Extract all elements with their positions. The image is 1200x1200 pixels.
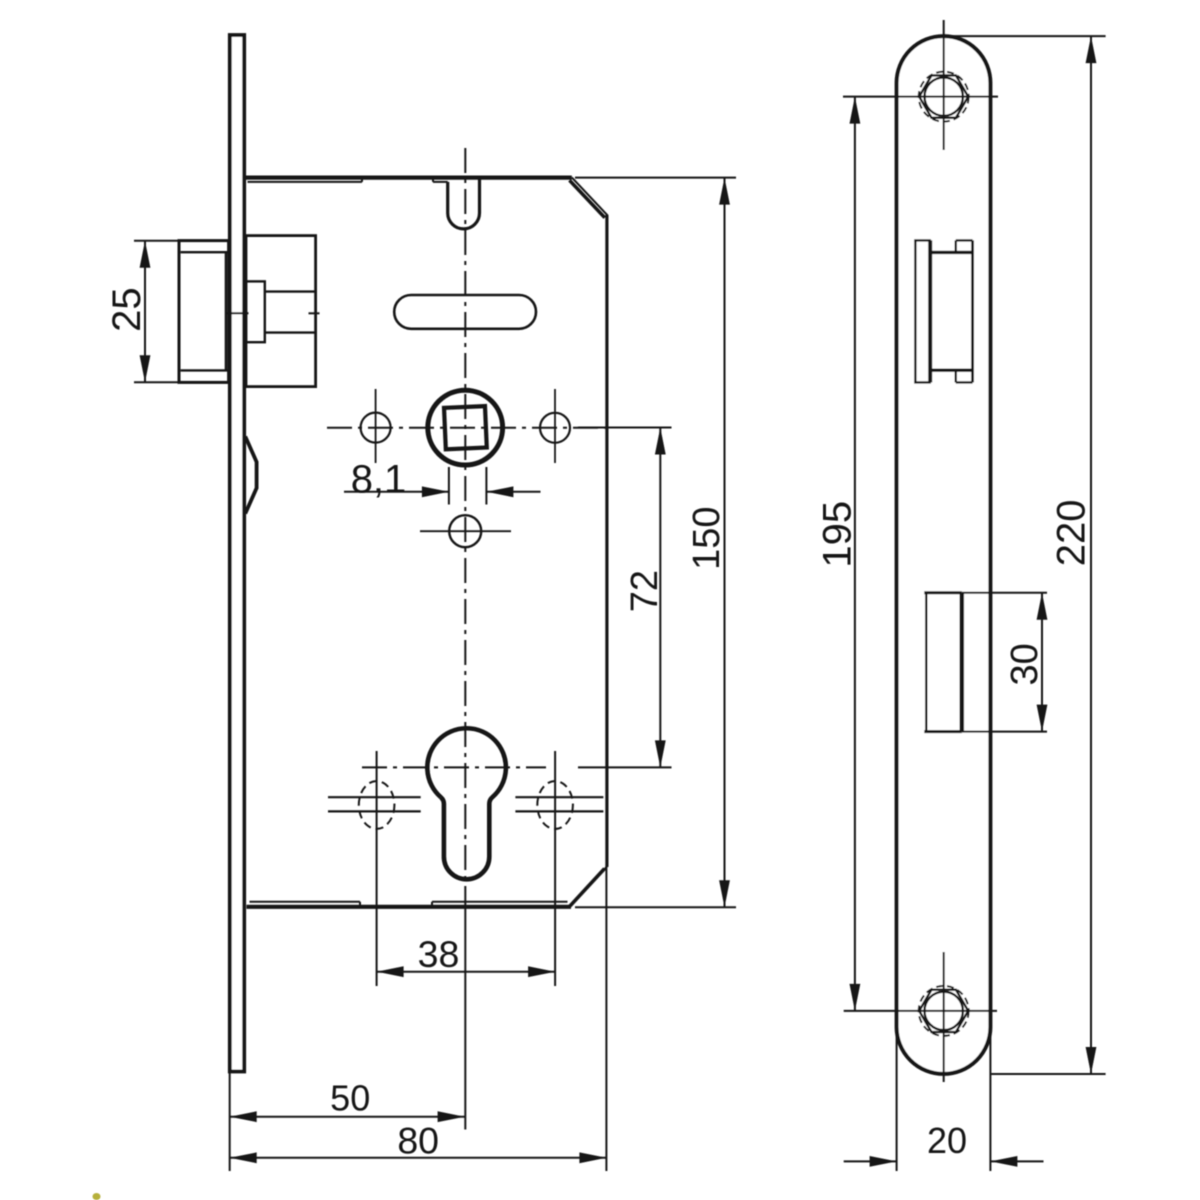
dimension 150 extension lines	[575, 177, 736, 179]
bottom screw hexagon	[919, 990, 968, 1032]
case vertical centerline	[464, 148, 466, 906]
extension line right (case edge) for 80/150	[605, 867, 607, 1171]
dimension 20 extension lines	[896, 1035, 898, 1171]
latch cutout: left strip	[914, 240, 916, 382]
svg-text:150: 150	[686, 506, 728, 569]
spindle horizontal centerline	[327, 427, 607, 429]
deadbolt cutout	[925, 593, 927, 732]
top notch (U cut)	[448, 178, 480, 229]
top screw hexagon	[919, 75, 968, 117]
screw channel lines	[328, 796, 421, 798]
svg-text:25: 25	[105, 287, 149, 332]
latch bolt head (left of faceplate)	[179, 241, 229, 383]
centerline extension below case	[464, 906, 466, 1130]
follower circle (spindle hub)	[428, 390, 503, 465]
right view dimension texts	[816, 500, 1094, 1161]
svg-text:72: 72	[624, 570, 666, 612]
dimension 80 line	[230, 1157, 607, 1159]
top screw outer circle	[919, 72, 969, 122]
left view dimension texts	[105, 287, 728, 1161]
top-right bevel	[572, 177, 608, 215]
latch bolt body (inside case)	[246, 236, 316, 387]
svg-text:20: 20	[927, 1120, 967, 1161]
left screw hole circle	[361, 413, 391, 443]
small yellow artifact bottom-left	[93, 1193, 101, 1200]
svg-text:8,1: 8,1	[351, 458, 407, 502]
latch tail block	[246, 281, 265, 342]
right screw hole circle	[540, 413, 570, 443]
bottom-right bevel	[571, 867, 607, 905]
case right edge	[605, 215, 608, 867]
dimension 20 line	[844, 1160, 897, 1162]
bottom screw crosshair	[943, 952, 945, 1082]
top screw crosshair	[943, 20, 945, 150]
bottom screw inner circle	[925, 992, 963, 1030]
svg-text:50: 50	[330, 1078, 370, 1119]
dimension 38 line	[377, 971, 555, 973]
svg-text:38: 38	[418, 933, 460, 975]
case bottom inner step line	[250, 901, 361, 903]
bottom screw outer circle	[919, 986, 969, 1036]
left view: mortise lock body	[134, 35, 736, 1171]
latch centerline	[227, 312, 249, 314]
follower square (8 mm spindle hole)	[444, 406, 487, 449]
deadbolt dimension 30 extension lines	[962, 592, 1047, 594]
dimension 25 line	[144, 241, 146, 382]
latch cutout: top tab	[956, 239, 973, 241]
svg-text:220: 220	[1049, 500, 1093, 567]
dimension 150 line	[724, 178, 726, 908]
latch cutout: bottom tab	[956, 381, 973, 383]
dimension 8,1 extension lines	[448, 467, 450, 505]
dimension 72 line	[659, 428, 661, 768]
faceplate (side view, long strip)	[230, 35, 244, 1072]
case top edge	[246, 176, 572, 180]
extension lines for 38	[376, 751, 378, 986]
faceplate outline (stadium)	[897, 36, 991, 1074]
svg-text:195: 195	[816, 501, 860, 568]
svg-text:80: 80	[397, 1120, 439, 1162]
hidden oval hole left (dashed)	[359, 781, 395, 829]
svg-text:30: 30	[1004, 643, 1046, 685]
case top inner step line	[248, 181, 363, 183]
oval slot (top)	[394, 295, 536, 329]
dimension 30 line	[1041, 593, 1043, 732]
dimension 72 extension lines	[578, 427, 672, 429]
latch cutout: main opening	[931, 251, 973, 254]
cylinder horizontal centerline	[362, 766, 546, 768]
top screw inner circle	[925, 77, 963, 115]
hole below follower	[449, 515, 481, 547]
euro profile cylinder hole (keyhole)	[427, 728, 506, 879]
extension line left (faceplate) for 50/80	[229, 1073, 231, 1171]
dimension 50 line	[230, 1116, 465, 1118]
dimension 220 extension lines	[945, 35, 1106, 37]
spring wedge detail on faceplate	[245, 437, 256, 514]
dimension 195 line	[854, 97, 856, 1011]
case bottom edge	[247, 905, 572, 909]
dimension 25 extension lines	[134, 240, 179, 242]
dimension 220 line	[1090, 36, 1092, 1074]
hidden oval hole right (dashed)	[537, 781, 573, 829]
latch tail bar	[265, 290, 316, 292]
dimension 8,1 line	[344, 491, 449, 493]
right view: faceplate front	[843, 20, 1106, 1171]
